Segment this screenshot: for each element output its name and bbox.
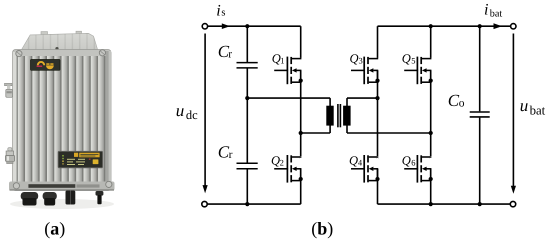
svg-text:Q: Q bbox=[402, 52, 411, 66]
svg-text:i: i bbox=[484, 1, 488, 18]
svg-text:dc: dc bbox=[186, 108, 198, 122]
svg-text:4: 4 bbox=[358, 158, 363, 168]
svg-text:o: o bbox=[459, 98, 465, 110]
svg-text:bat: bat bbox=[530, 103, 546, 117]
svg-text:6: 6 bbox=[411, 158, 415, 168]
svg-text:u: u bbox=[176, 101, 185, 120]
svg-text:i: i bbox=[216, 2, 220, 19]
svg-text:(b): (b) bbox=[311, 218, 333, 238]
svg-text:2: 2 bbox=[280, 158, 284, 168]
svg-text:Q: Q bbox=[402, 154, 411, 168]
svg-text:Q: Q bbox=[349, 154, 358, 168]
svg-text:s: s bbox=[221, 8, 225, 19]
svg-text:Q: Q bbox=[350, 52, 359, 66]
svg-text:1: 1 bbox=[280, 56, 284, 66]
svg-text:r: r bbox=[228, 48, 232, 60]
svg-text:5: 5 bbox=[411, 56, 415, 66]
svg-text:3: 3 bbox=[359, 56, 363, 66]
svg-text:bat: bat bbox=[490, 9, 503, 20]
svg-text:r: r bbox=[229, 149, 233, 161]
svg-text:(a): (a) bbox=[44, 218, 65, 238]
svg-text:u: u bbox=[520, 96, 529, 115]
